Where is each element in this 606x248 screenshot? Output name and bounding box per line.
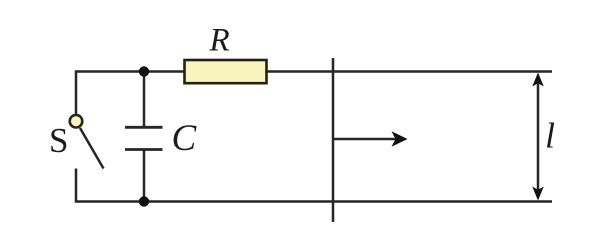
propagation arrow shaft bbox=[334, 138, 396, 141]
capacitor C top plate bbox=[125, 126, 163, 129]
switch S pivot circle bbox=[70, 115, 83, 128]
resistor R body bbox=[185, 60, 267, 83]
junction dot top bbox=[139, 66, 149, 76]
length dimension arrow head down bbox=[532, 187, 544, 201]
svg-text:R: R bbox=[209, 23, 230, 59]
wire top rail with left drop to switch bbox=[76, 72, 552, 114]
wire capacitor bottom lead bbox=[143, 150, 146, 202]
junction dot bottom bbox=[139, 196, 149, 206]
length dimension arrow (double-headed) shaft bbox=[537, 78, 540, 195]
capacitor C bottom plate bbox=[125, 148, 163, 151]
wire bottom rail with left rise to switch contact bbox=[76, 169, 552, 202]
svg-text:S: S bbox=[49, 121, 68, 160]
wire capacitor top lead bbox=[143, 72, 146, 128]
propagation arrow head bbox=[392, 131, 408, 147]
transmission line input plane (vertical line) bbox=[332, 58, 335, 222]
length dimension arrow head up bbox=[532, 73, 544, 87]
switch S blade (open) bbox=[80, 128, 104, 169]
svg-text:l: l bbox=[545, 116, 555, 156]
svg-text:C: C bbox=[172, 118, 198, 159]
